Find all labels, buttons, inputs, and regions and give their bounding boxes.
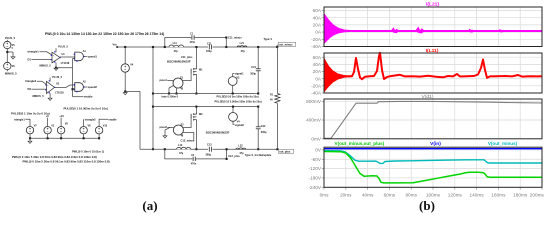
node D1 (+5): [47, 118, 49, 127]
svg-text:100µ: 100µ: [206, 50, 212, 53]
svg-text:-120V: -120V: [308, 166, 321, 171]
svg-text:47µ: 47µ: [179, 152, 184, 155]
svg-text:PLUS_5: PLUS_5: [58, 44, 68, 48]
trace I(L11) red: [324, 57, 352, 93]
svg-text:out_minus: out_minus: [279, 43, 293, 47]
svg-text:470n: 470n: [190, 41, 196, 44]
wire E2 to gate: [183, 120, 191, 128]
waveform panel (b): [306, 1, 544, 197]
svg-text:40ms: 40ms: [362, 193, 374, 198]
svg-text:enable: enable: [84, 95, 93, 99]
voltage source V7: [26, 127, 33, 134]
wire: [40, 52, 53, 55]
svg-text:400mV: 400mV: [306, 118, 322, 123]
svg-text:C21: C21: [251, 66, 256, 69]
svg-text:C11_plus: C11_plus: [181, 55, 193, 59]
svg-text:PLUS_5: PLUS_5: [5, 36, 16, 40]
node mid junction: [6, 51, 8, 53]
schematic (a): [4, 32, 296, 166]
trace V(d1) grey: [324, 101, 542, 138]
voltage source V9: [57, 127, 64, 134]
svg-text:0A: 0A: [315, 30, 322, 35]
capacitor C1 in bypass: [191, 36, 194, 38]
behavioral source E2 gate driver: [173, 125, 183, 135]
svg-text:PULSE(0 1 10m 5u 5u 0 10u): PULSE(0 1 10m 5u 5u 0 10u): [11, 111, 50, 115]
wire M1 source down: [195, 77, 197, 94]
svg-text:pass1: pass1: [160, 78, 168, 82]
svg-text:triangle2: triangle2: [85, 117, 96, 121]
inductor L11: [169, 44, 184, 47]
wire E2 to C12_minus: [183, 133, 194, 141]
behavioral source B1 signal1: [228, 77, 237, 86]
svg-text:PWL(0 0 10m 5 30m 0.8 50m 0.83: PWL(0 0 10m 5 30m 0.8 50m 0.83 90m 0.83 …: [12, 155, 97, 159]
wire A2 out / node speed2: [84, 86, 88, 88]
svg-text:120ms: 120ms: [448, 193, 463, 198]
svg-text:-60V: -60V: [311, 157, 322, 162]
trace V(in) blue: [324, 148, 542, 150]
port MINUS_5 at U1 / ground: [55, 63, 57, 68]
svg-text:MINUS_5: MINUS_5: [40, 64, 52, 68]
wire A1 lower input to enable bus: [73, 58, 75, 60]
svg-text:+10: +10: [59, 114, 64, 118]
svg-text:0V: 0V: [315, 148, 322, 153]
svg-text:speed1: speed1: [88, 54, 98, 58]
svg-text:I(L11): I(L11): [426, 48, 439, 54]
wire bypass bottom: [165, 149, 227, 159]
svg-text:V(in): V(in): [430, 141, 441, 147]
svg-text:L21: L21: [240, 42, 245, 45]
voltage source V10: [95, 127, 102, 134]
svg-text:speed2: speed2: [88, 85, 98, 89]
svg-text:MINUS_5: MINUS_5: [5, 71, 17, 75]
wire E1 legs: [168, 88, 170, 94]
port PLUS_5 at U1: [55, 48, 57, 52]
svg-text:PWL(0 0 10u 14 130m 14 130.1m: PWL(0 0 10u 14 130m 14 130.1m 22 150m 22…: [45, 32, 164, 36]
transistor M1 BSC060N10NS3: [195, 47, 197, 67]
svg-text:L12: L12: [178, 144, 183, 147]
svg-text:40A: 40A: [313, 62, 322, 67]
svg-text:pass2: pass2: [160, 125, 168, 129]
svg-text:V(out_minus,out_plus): V(out_minus,out_plus): [335, 141, 385, 146]
voltage source V1: [44, 127, 51, 134]
svg-text:C12_plus: C12_plus: [228, 154, 240, 158]
svg-text:PWL(0 0 10m 5 30m 0.8 56.1m 0.: PWL(0 0 10m 5 30m 0.8 56.1m 0.83 90m 0.8…: [23, 160, 110, 164]
wire: [7, 51, 13, 53]
capacitor C22: [257, 107, 259, 127]
svg-text:enable: enable: [108, 117, 117, 121]
svg-text:triangle1: triangle1: [28, 50, 40, 54]
wire: [37, 81, 47, 84]
svg-text:C22: C22: [261, 125, 266, 128]
svg-text:330µ: 330µ: [261, 131, 267, 134]
svg-text:signal1: signal1: [235, 72, 244, 76]
svg-text:40A: 40A: [313, 15, 322, 20]
wire U2 out: [55, 86, 67, 88]
node D2 (+10): [60, 118, 62, 127]
node triangle1: [25, 119, 30, 126]
wire mid rail top stage: [153, 93, 258, 95]
inductor L22: [236, 148, 246, 149]
svg-text:C11: C11: [207, 42, 212, 45]
svg-text:-40A: -40A: [311, 44, 322, 49]
svg-text:Type=1: Type=1: [264, 38, 273, 41]
trace V(out_minus) cyan: [324, 151, 542, 164]
capacitor C12: [208, 148, 213, 150]
wire: [6, 49, 8, 63]
svg-text:-180V: -180V: [308, 176, 321, 181]
wire V4 down: [124, 72, 126, 91]
svg-text:47µ: 47µ: [241, 50, 246, 53]
port MINUS_5 at U2 / ground: [49, 93, 51, 98]
wire A1 out / node speed1: [84, 55, 88, 57]
svg-text:300µ: 300µ: [206, 153, 212, 156]
frame p3: [324, 99, 542, 139]
svg-text:160ms: 160ms: [491, 193, 506, 198]
svg-text:triangle2: triangle2: [25, 79, 37, 83]
svg-text:LT1018: LT1018: [61, 62, 70, 65]
svg-text:20ms: 20ms: [340, 193, 352, 198]
ground at V4: [123, 93, 127, 95]
wire M2 source down: [195, 122, 197, 149]
wire: [6, 40, 8, 42]
svg-text:PLUS_5: PLUS_5: [52, 75, 62, 79]
svg-text:D1: D1: [28, 57, 32, 61]
wire left bus x153: [152, 47, 154, 149]
svg-text:-20A: -20A: [311, 83, 322, 88]
node enable: [73, 96, 84, 98]
svg-text:Type=1_tra Nameplate: Type=1_tra Nameplate: [245, 154, 272, 157]
wire bypass top: [165, 38, 227, 48]
svg-text:(a): (a): [142, 198, 157, 213]
wire: [32, 88, 47, 90]
op-amp U2 LT1018: [47, 81, 55, 93]
node enable: [99, 119, 108, 126]
svg-text:0mV: 0mV: [311, 136, 322, 141]
port PLUS_5 at U2: [49, 78, 51, 82]
ground: [29, 138, 31, 141]
svg-text:-: -: [53, 60, 54, 63]
wire lower mid rail: [153, 106, 258, 108]
svg-text:I(L21): I(L21): [426, 1, 439, 7]
op-amp U1 LT1018: [52, 52, 60, 63]
voltage source V5: [4, 41, 11, 48]
svg-text:V(d1): V(d1): [422, 94, 434, 100]
svg-text:800mV: 800mV: [306, 99, 322, 104]
svg-text:BSC060N10NS3F: BSC060N10NS3F: [167, 59, 191, 63]
logic gate A1: [75, 52, 84, 61]
behavioral source E1 gate driver: [173, 78, 183, 88]
svg-text:47µ: 47µ: [239, 152, 244, 155]
voltage source V6: [4, 62, 11, 69]
svg-text:47µ: 47µ: [174, 50, 179, 53]
grid p1: [324, 7, 542, 47]
svg-text:-20A: -20A: [311, 37, 322, 42]
grid p2: [324, 53, 542, 93]
capacitor C11: [208, 46, 213, 48]
inductor L21: [237, 46, 247, 47]
voltage source V8: [80, 127, 87, 134]
svg-text:140ms: 140ms: [470, 193, 485, 198]
svg-text:60A: 60A: [313, 8, 322, 13]
wire: [32, 59, 53, 61]
ground: [11, 57, 15, 59]
svg-text:180ms: 180ms: [513, 193, 528, 198]
grid p3: [324, 99, 542, 139]
wire source row rail: [29, 134, 31, 138]
svg-text:V10: V10: [103, 125, 108, 128]
svg-text:V(out_minus): V(out_minus): [488, 141, 518, 146]
svg-text:M2: M2: [199, 113, 203, 116]
node triangle2: [83, 119, 85, 126]
svg-text:20A: 20A: [313, 23, 322, 28]
wire top rail: [117, 46, 277, 48]
svg-text:C12_minus: C12_minus: [181, 139, 195, 143]
svg-text:L22: L22: [238, 144, 243, 147]
logic gate A2: [75, 83, 84, 92]
svg-text:80ms: 80ms: [405, 193, 417, 198]
svg-text:C12: C12: [207, 144, 212, 147]
svg-text:PWL(0 0 10m 0 10.01m 1): PWL(0 0 10m 0 10.01m 1): [72, 149, 104, 153]
svg-text:MINUS_5: MINUS_5: [33, 94, 45, 98]
svg-text:PULSE(0 1 10.005m 5u 5u 0 10u): PULSE(0 1 10.005m 5u 5u 0 10u): [64, 107, 108, 111]
svg-text:-240V: -240V: [308, 185, 321, 190]
wire: [6, 70, 8, 72]
wire V4 up: [124, 47, 126, 64]
svg-text:60ms: 60ms: [384, 193, 396, 198]
grid p4: [324, 147, 542, 187]
svg-text:M1: M1: [199, 69, 203, 72]
voltage source V4: [121, 64, 129, 72]
behavioral source B2 signal2: [229, 113, 238, 122]
resistor R1 load: [276, 47, 278, 93]
wire E1 to gate: [183, 75, 191, 81]
svg-text:BSC060N10NS3F: BSC060N10NS3F: [206, 130, 230, 134]
frame p4: [324, 147, 542, 187]
svg-text:-: -: [47, 90, 48, 93]
svg-text:D2: D2: [28, 87, 32, 91]
wire ground bus right/down: [125, 90, 140, 92]
svg-text:100ms: 100ms: [426, 193, 441, 198]
capacitor C21: [257, 47, 259, 69]
svg-text:0A: 0A: [315, 76, 322, 81]
wire bottom rail: [140, 148, 277, 150]
frame p1: [324, 7, 542, 47]
svg-text:20A: 20A: [313, 69, 322, 74]
capacitor C2 in bypass: [192, 158, 195, 160]
wire U1 out: [60, 56, 75, 58]
inductor L12: [176, 147, 191, 150]
port out_plus: [276, 148, 278, 150]
svg-text:470n: 470n: [191, 162, 197, 165]
svg-text:60A: 60A: [313, 55, 322, 60]
wire A2 lower input: [73, 88, 75, 90]
frame p2: [324, 53, 542, 93]
svg-text:Vin: Vin: [113, 43, 117, 47]
svg-text:-40A: -40A: [311, 91, 322, 96]
svg-text:out_plus: out_plus: [279, 150, 291, 154]
svg-text:Irate 0 200m 0: Irate 0 200m 0: [162, 96, 179, 99]
svg-text:PULSE(0 10 5m 100n 100n 9u 10u: PULSE(0 10 5m 100n 100n 9u 10u): [217, 95, 259, 99]
port out_minus: [276, 45, 278, 47]
trace I(L21) magenta: [324, 13, 352, 44]
svg-text:L11: L11: [173, 42, 178, 45]
svg-text:C11_minus: C11_minus: [228, 36, 242, 40]
svg-text:300µ: 300µ: [250, 72, 256, 75]
svg-text:200ms: 200ms: [530, 193, 545, 198]
svg-text:PULSE(0 10 5.005m 100n 100n 9u: PULSE(0 10 5.005m 100n 100n 9u 10u): [215, 100, 262, 104]
svg-text:(b): (b): [419, 198, 435, 213]
svg-text:0ms: 0ms: [320, 193, 330, 198]
transistor M2 BSC060N10NS3: [195, 107, 197, 112]
ground at E2: [165, 127, 170, 135]
svg-text:LT1018: LT1018: [55, 91, 64, 94]
trace V(out_minus,out_plus) green: [324, 152, 542, 183]
svg-text:triangle1: triangle1: [14, 117, 25, 121]
